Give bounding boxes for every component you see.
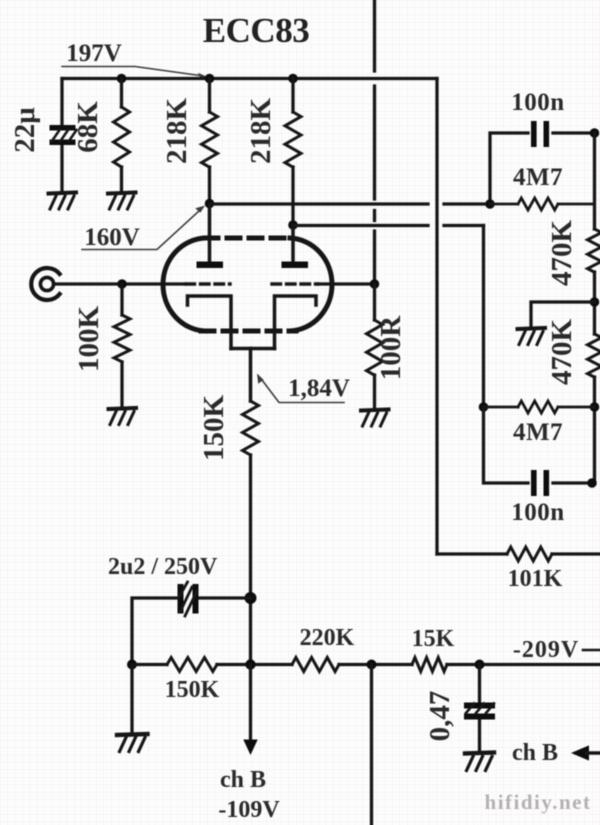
junction: right grid node bbox=[370, 279, 380, 289]
svg-text:220K: 220K bbox=[300, 625, 355, 651]
svg-text:100n: 100n bbox=[511, 499, 564, 526]
wire: left plate to top coupling network (y=204) bbox=[210, 202, 491, 205]
svg-text:101K: 101K bbox=[508, 566, 563, 592]
svg-text:197V: 197V bbox=[66, 40, 122, 67]
wire: bottom feed from supply to output (y=554) bbox=[437, 552, 600, 555]
svg-text:-209V: -209V bbox=[513, 637, 579, 663]
capacitor 100n (top) loop wires bbox=[490, 133, 595, 204]
wire: input to grid (y=284) bbox=[54, 282, 186, 285]
svg-text:160V: 160V bbox=[84, 224, 140, 251]
svg-text:4M7: 4M7 bbox=[513, 419, 563, 446]
ground below 68K bbox=[108, 193, 136, 210]
capacitor C1 22u symbol bbox=[50, 125, 76, 145]
input jack J1 bbox=[31, 268, 59, 300]
svg-text:218K: 218K bbox=[161, 98, 193, 165]
U1 cathodes bbox=[188, 296, 317, 401]
resistor 220K bbox=[292, 658, 339, 672]
svg-text:150K: 150K bbox=[165, 677, 220, 703]
tube U1 ECC83 envelope bbox=[163, 238, 332, 331]
svg-text:ECC83: ECC83 bbox=[203, 11, 309, 50]
capacitor 2u2 symbol bbox=[178, 584, 199, 614]
resistor 68K bbox=[114, 107, 130, 167]
svg-text:-109V: -109V bbox=[218, 797, 280, 823]
svg-text:2u2 / 250V: 2u2 / 250V bbox=[108, 554, 218, 580]
capacitor 0,47 legs bbox=[478, 665, 481, 753]
junction: top right corner bbox=[590, 128, 600, 138]
svg-text:0,47: 0,47 bbox=[424, 691, 456, 742]
svg-text:ch B: ch B bbox=[512, 740, 558, 766]
junction: cathode / 2u2 node bbox=[245, 592, 257, 604]
node label 1,84V with leader arrow bbox=[257, 374, 350, 403]
wire: cathode resistor to bottom node bbox=[249, 455, 252, 665]
svg-text:218K: 218K bbox=[245, 98, 277, 165]
wire: grid feed vertical x=374.5 bbox=[373, 0, 376, 284]
ground below 100R bbox=[361, 410, 389, 427]
resistor 15K bbox=[412, 658, 447, 672]
resistor 470K (lower) bbox=[588, 334, 600, 377]
junction: ladder bottom node bbox=[590, 402, 600, 412]
svg-text:ch B: ch B bbox=[220, 767, 266, 793]
resistor 100K (grid leak) bbox=[114, 315, 130, 362]
svg-text:100R: 100R bbox=[375, 315, 407, 381]
junction: bottom rail / drop node bbox=[367, 660, 377, 670]
ground below 100K bbox=[109, 408, 137, 425]
junction: lower coupling node bbox=[479, 402, 489, 412]
junction: left plate node 160V bbox=[205, 199, 215, 209]
ground (bottom left) bbox=[117, 734, 148, 752]
svg-text:470K: 470K bbox=[546, 319, 578, 386]
wire: right plate drop (x=483.5) bbox=[482, 226, 485, 408]
capacitor 100n (top) bbox=[531, 121, 549, 147]
capacitor C1 22u leg bbox=[60, 79, 63, 194]
wire: supply rail right drop bbox=[435, 79, 438, 555]
junction: bottom-left node bbox=[127, 660, 137, 670]
capacitor 100n (bottom) bbox=[531, 470, 549, 496]
capacitor 100n (bottom) loop wires bbox=[484, 407, 595, 483]
U1 grid (left triode) bbox=[186, 282, 230, 285]
junction: 0,47 node bbox=[475, 660, 485, 670]
svg-text:470K: 470K bbox=[546, 220, 578, 287]
ground below 0,47 bbox=[465, 753, 494, 771]
wire: right ladder vertical bbox=[593, 133, 596, 483]
U1 plate (right triode) bbox=[291, 225, 294, 262]
node label 160V with leader arrow bbox=[82, 206, 205, 252]
U1 plate (left triode) bbox=[208, 204, 211, 262]
resistor 100R legs bbox=[373, 284, 376, 409]
svg-text:1,84V: 1,84V bbox=[288, 375, 350, 402]
junction: coupling node (491,204) bbox=[485, 199, 495, 209]
junction: 68K top bbox=[117, 74, 127, 84]
resistor 218K (right plate load) bbox=[285, 112, 301, 167]
svg-text:100n: 100n bbox=[511, 89, 564, 116]
resistor 218K left leg bbox=[208, 79, 211, 263]
junction: divider tap bbox=[590, 297, 600, 307]
svg-text:hifidiy.net: hifidiy.net bbox=[485, 790, 592, 814]
wire: bottom rail left bbox=[132, 663, 600, 666]
svg-text:22μ: 22μ bbox=[9, 107, 41, 153]
U1 grid (right triode) bbox=[272, 282, 318, 285]
wire: divider tap to ground bbox=[531, 302, 595, 328]
capacitor 0,47 symbol bbox=[464, 703, 495, 720]
resistor 100R bbox=[367, 320, 383, 375]
svg-text:100K: 100K bbox=[73, 306, 105, 373]
ground (divider tap) bbox=[518, 328, 546, 345]
resistor 4M7 (bottom) bbox=[484, 401, 595, 413]
ground leg (bottom left) bbox=[130, 665, 133, 734]
resistor 470K (upper) bbox=[588, 229, 600, 272]
wire: right grid to 100R node bbox=[318, 282, 375, 285]
resistor 150K (cathode) bbox=[243, 401, 259, 455]
resistor 101K bbox=[507, 547, 552, 561]
resistor 218K (left plate load) bbox=[202, 112, 218, 167]
resistor 68K leg bbox=[120, 79, 123, 194]
junction: 218K(left) top bbox=[205, 74, 215, 84]
junction: cathode bottom node bbox=[245, 659, 255, 669]
junction: grid / 100K node bbox=[117, 279, 127, 289]
svg-text:4M7: 4M7 bbox=[513, 164, 563, 191]
svg-text:68K: 68K bbox=[72, 101, 104, 153]
capacitor 2u2 wires bbox=[132, 598, 251, 665]
junction: 218K(right) top bbox=[288, 74, 298, 84]
wire: supply rail top bbox=[62, 77, 437, 80]
junction: bottom right corner bbox=[587, 478, 597, 488]
resistor 100K legs bbox=[120, 284, 123, 408]
resistor 150K (bottom) bbox=[167, 658, 217, 672]
svg-text:15K: 15K bbox=[412, 626, 455, 652]
arrow to ch B -109V bbox=[249, 665, 252, 742]
wire: drop to bottom edge bbox=[370, 665, 373, 825]
svg-text:150K: 150K bbox=[198, 395, 230, 462]
ground below 22u bbox=[49, 193, 77, 210]
resistor 218K right leg bbox=[291, 79, 294, 263]
node label 197V with leader arrow bbox=[62, 40, 208, 79]
wire: right plate to lower coupling network (y=225) bbox=[293, 224, 484, 227]
resistor 4M7 (top) bbox=[490, 198, 595, 210]
junction: right plate node bbox=[288, 220, 298, 230]
